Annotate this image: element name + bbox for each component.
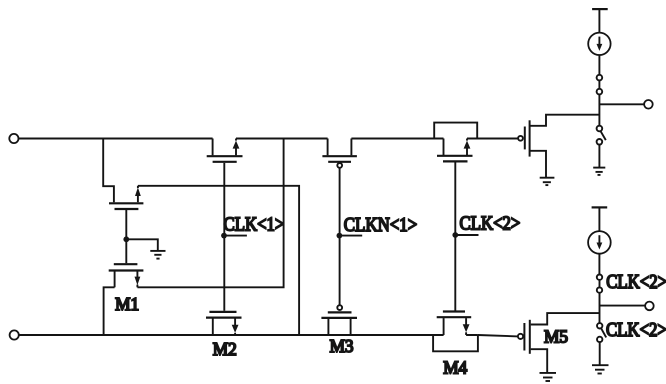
output terminal top (644, 100, 653, 109)
switch top closed (597, 75, 603, 95)
svg-text:M2: M2 (213, 339, 237, 359)
switch bottom closed (597, 275, 602, 293)
transistor M1 upper (109, 186, 143, 209)
output terminal bottom (645, 302, 654, 311)
ground switch bottom (592, 365, 609, 373)
transistor upper of branch CLKN1 (322, 139, 357, 168)
svg-text:CLKN<1>: CLKN<1> (344, 215, 417, 237)
wire gate line CLKN1 (339, 168, 341, 305)
ground M1 (150, 251, 165, 259)
wire (598, 145, 600, 167)
transistor M1 lower (109, 264, 144, 287)
wire (599, 293, 601, 323)
wire (598, 9, 600, 32)
svg-text:CLK<2>: CLK<2> (459, 212, 520, 234)
wire gate line CLK1 (223, 163, 225, 311)
current source bottom (588, 231, 611, 254)
wire M1 gates tie (125, 210, 127, 263)
svg-text:M4: M4 (443, 357, 467, 377)
ground output top (540, 178, 555, 185)
node M1 gates (123, 236, 129, 242)
svg-text:CLK<2>: CLK<2> (606, 319, 666, 341)
wire B source of lower M1 up to top rail (137, 139, 283, 288)
wire (598, 207, 600, 231)
wire A source of upper M1 to bottom rail (138, 186, 299, 335)
input terminal top (9, 134, 18, 143)
ground M5 (540, 373, 557, 381)
wire output top (599, 103, 644, 105)
transistor dummy upper of branch CLK2 (434, 123, 477, 162)
wire to ground (126, 239, 158, 250)
wire CLK2 stub (455, 234, 478, 236)
svg-text:M5: M5 (544, 326, 568, 346)
node CLK2 (452, 232, 458, 238)
wire CLKN1 stub (339, 235, 362, 237)
wire M1 lower left leg to bottom rail (104, 287, 115, 335)
svg-text:CLK<1>: CLK<1> (223, 213, 284, 235)
supply tick top (592, 8, 608, 10)
switch top open (597, 126, 606, 145)
ground switch top (593, 168, 605, 175)
svg-text:M3: M3 (330, 335, 354, 355)
wire (598, 55, 600, 75)
node CLKN1 (337, 233, 343, 239)
wire (598, 254, 600, 275)
wire (598, 94, 600, 125)
wire M1 drain feed (103, 139, 114, 203)
wire CLK1 stub (224, 235, 247, 237)
wire output bottom (600, 305, 646, 307)
wire top rail (19, 138, 519, 140)
transistor M3 (321, 305, 357, 335)
svg-text:M1: M1 (115, 294, 139, 314)
wire (599, 342, 601, 364)
wire gate line CLK2 (454, 163, 456, 311)
transistor M2 (206, 312, 242, 335)
input terminal bottom (10, 330, 19, 339)
switch bottom open (597, 323, 606, 342)
wire M4 to M5 gate (478, 335, 518, 336)
transistor upper of branch CLK1 (207, 139, 243, 162)
transistor output top PMOS (518, 115, 599, 177)
current source top (588, 33, 610, 55)
node CLK1 (221, 233, 227, 239)
svg-text:CLK<2>: CLK<2> (606, 270, 666, 292)
wire bottom rail (19, 334, 478, 336)
supply tick bottom (592, 206, 608, 208)
transistor M4 dummy (433, 312, 478, 352)
transistor M5 (518, 313, 600, 372)
